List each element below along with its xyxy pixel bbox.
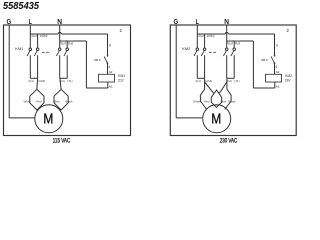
svg-text:(T1): (T1) — [67, 79, 72, 83]
svg-text:Red: Red — [36, 99, 42, 103]
svg-text:115V: 115V — [118, 79, 124, 83]
svg-text:Blue: Blue — [221, 99, 227, 103]
svg-text:6.1: 6.1 — [33, 34, 37, 37]
svg-text:230V: 230V — [285, 79, 291, 83]
svg-text:A2: A2 — [109, 70, 113, 74]
svg-text:White: White — [24, 99, 32, 103]
svg-text:230 VAC: 230 VAC — [220, 137, 238, 144]
svg-text:L: L — [196, 17, 200, 26]
svg-text:(F1): (F1) — [196, 79, 201, 83]
svg-text:N: N — [224, 17, 229, 26]
svg-text:White: White — [193, 99, 201, 103]
svg-text:Blue: Blue — [54, 99, 60, 103]
svg-text:6.1: 6.1 — [229, 42, 233, 45]
svg-text:SB 6: SB 6 — [261, 58, 268, 62]
svg-text:G: G — [6, 17, 11, 26]
svg-text:6.1: 6.1 — [236, 42, 240, 45]
svg-text:6: 6 — [276, 43, 278, 47]
svg-text:(T1): (T1) — [234, 79, 239, 83]
svg-text:(F1): (F1) — [29, 79, 34, 83]
svg-text:4: 4 — [108, 65, 110, 69]
svg-text:6.1: 6.1 — [62, 42, 66, 45]
svg-text:KM1: KM1 — [118, 74, 125, 78]
svg-text:KM2: KM2 — [182, 46, 191, 51]
svg-text:M: M — [211, 112, 221, 128]
svg-text:5585435: 5585435 — [3, 1, 39, 12]
svg-text:A2: A2 — [276, 70, 280, 74]
svg-text:4: 4 — [275, 65, 277, 69]
svg-text:N: N — [57, 17, 62, 26]
svg-text:GND: GND — [205, 79, 211, 83]
svg-text:GND: GND — [208, 34, 214, 37]
svg-text:GND: GND — [41, 34, 47, 37]
svg-text:Red: Red — [204, 99, 210, 103]
svg-text:KM1: KM1 — [15, 46, 24, 51]
svg-text:6.1: 6.1 — [200, 34, 204, 37]
svg-text:115 VAC: 115 VAC — [53, 137, 71, 144]
svg-text:G: G — [173, 17, 178, 26]
svg-text:M: M — [43, 112, 53, 128]
svg-text:Black: Black — [65, 99, 73, 103]
svg-text:SB 6: SB 6 — [94, 58, 101, 62]
svg-text:L: L — [29, 17, 33, 26]
svg-text:6.1: 6.1 — [69, 42, 73, 45]
svg-text:A1: A1 — [276, 85, 280, 89]
svg-text:A1: A1 — [109, 85, 113, 89]
svg-text:Black: Black — [229, 99, 237, 103]
svg-text:6: 6 — [109, 43, 111, 47]
svg-text:GND: GND — [38, 79, 44, 83]
svg-text:KM2: KM2 — [285, 74, 292, 78]
